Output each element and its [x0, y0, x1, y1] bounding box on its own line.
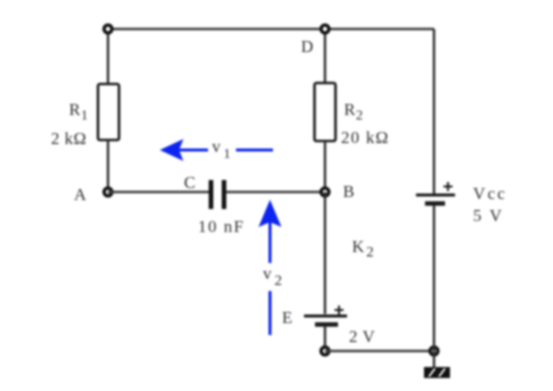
- wire: bottom horizontal: [325, 350, 434, 352]
- arrow v2 (blue, pointing up): [260, 201, 281, 335]
- svg-text:20 kΩ: 20 kΩ: [341, 128, 389, 147]
- svg-text:v1: v1: [212, 137, 231, 162]
- battery E negative plate (short): [315, 322, 338, 326]
- battery E positive plate (long): [304, 315, 347, 318]
- wire: B down to battery E: [324, 192, 326, 314]
- wire: top horizontal from top-left node to right branch: [108, 28, 434, 30]
- wire: A to capacitor left plate: [108, 191, 209, 193]
- resistor R2 body: [315, 83, 336, 141]
- svg-text:2 V: 2 V: [349, 327, 375, 346]
- svg-text:R2: R2: [344, 100, 363, 124]
- node A junction: [104, 188, 112, 196]
- wire: right vertical upper (top wire to Vcc battery): [433, 29, 435, 194]
- wire: left vertical upper (top-left node to R1): [107, 29, 109, 85]
- ground symbol: [424, 367, 450, 378]
- wire: R2 to node B: [324, 141, 326, 192]
- svg-text:A: A: [74, 185, 87, 204]
- wire: D node down to R2: [324, 29, 326, 84]
- resistor R1 body: [98, 84, 119, 140]
- svg-text:v2: v2: [263, 264, 282, 289]
- node B junction: [321, 188, 329, 196]
- wire: stub to ground: [433, 351, 435, 368]
- svg-text:10 nF: 10 nF: [198, 217, 245, 236]
- battery Vcc plus sign: [444, 182, 453, 191]
- capacitor C left plate: [209, 180, 214, 209]
- arrow v1 (blue, pointing left): [161, 140, 273, 160]
- svg-text:Vcc: Vcc: [473, 184, 507, 203]
- node bottom junction: [321, 347, 329, 355]
- svg-text:B: B: [343, 182, 354, 201]
- capacitor C right plate: [222, 180, 227, 209]
- wire: left vertical lower (R1 to node A): [107, 140, 109, 192]
- wire: right vertical lower (Vcc battery to bottom-right node): [433, 205, 435, 351]
- svg-text:2 kΩ: 2 kΩ: [51, 129, 86, 148]
- svg-text:E: E: [282, 308, 292, 327]
- svg-text:5 V: 5 V: [473, 206, 504, 225]
- svg-text:D: D: [301, 37, 313, 56]
- battery E plus sign: [335, 306, 344, 315]
- wire: capacitor right plate to node B: [226, 191, 325, 193]
- svg-text:C: C: [184, 173, 195, 192]
- battery Vcc positive plate (long): [416, 194, 455, 197]
- svg-text:K2: K2: [352, 237, 374, 261]
- node top-left junction: [104, 25, 112, 33]
- svg-text:R1: R1: [69, 100, 88, 124]
- battery Vcc negative plate (short): [425, 201, 445, 205]
- node D junction: [321, 25, 329, 33]
- node bottom-right junction: [430, 347, 438, 355]
- wire: battery E to bottom node: [324, 326, 326, 351]
